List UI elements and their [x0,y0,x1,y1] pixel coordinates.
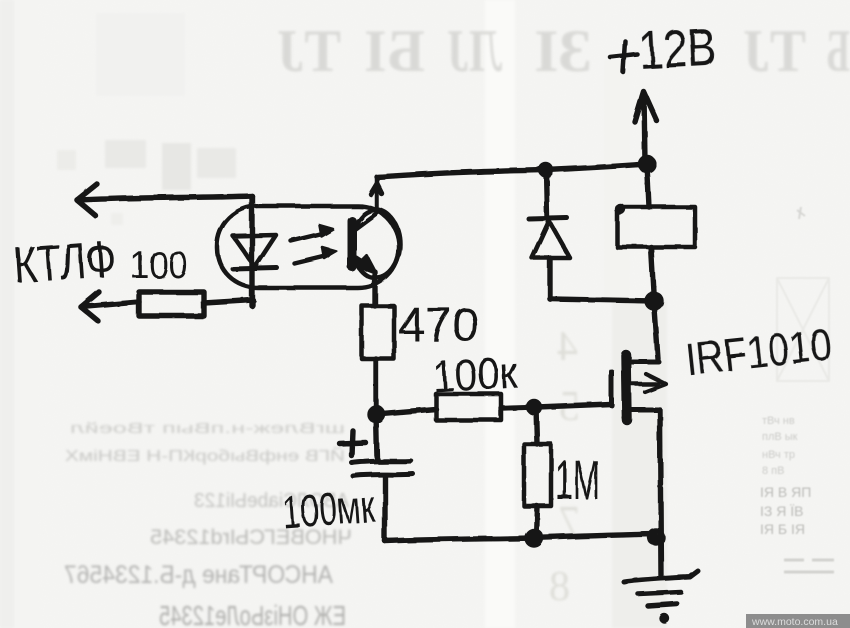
svg-text:тВч нв: тВч нв [762,415,795,427]
+12V arrow [644,94,645,163]
MOSFET gate bar [609,371,614,405]
resistor 100k [436,394,501,420]
junction node bottom rail [527,531,541,545]
svg-text:плВ ык: плВ ык [762,431,798,443]
svg-text:8: 8 [549,564,570,610]
wire: junction to 100k [376,409,436,414]
wire: gate to divider node [537,404,611,407]
wire: diode bottom to relay bottom junction [550,299,654,301]
wire: resistor 100 to LED cathode [204,300,253,303]
svg-text:нВч тр: нВч тр [762,449,795,461]
phototransistor base bar [348,221,357,267]
svg-text:ІЯ Б ІЯ: ІЯ Б ІЯ [760,521,805,537]
junction node gate divider [529,402,540,413]
junction node at +12V [641,158,654,171]
svg-text:ЕЖ ОНізЬоЛе12345: ЕЖ ОНізЬоЛе12345 [159,600,346,628]
phototransistor collector [354,177,377,230]
wire: bottom-left arrow [81,292,99,321]
whiter scanner strip [485,0,515,628]
svg-text:ТЈ: ТЈ [743,18,806,84]
LED of optocoupler [233,235,276,267]
svg-text:1М: 1М [555,448,600,511]
MOSFET body arrow [632,382,658,387]
light arrow 1 [291,233,324,241]
faint square top-left [96,13,185,96]
svg-text:ЛЈ: ЛЈ [447,18,502,84]
diode (flyback) [546,170,547,217]
capacitor 100mk [376,414,377,459]
ground symbol [624,571,698,582]
svg-text:ІЗ Я ЇВ: ІЗ Я ЇВ [760,503,803,519]
svg-text:100мк: 100мк [280,480,377,538]
optocoupler body oval [217,206,399,288]
svg-text:4: 4 [557,324,578,370]
relay coil [647,164,649,207]
bleed-through: right column box with X and small text [760,207,834,572]
svg-text:КТЛФ: КТЛФ [12,230,118,294]
svg-text:шгВлеж-н.пВып тВоейл: шгВлеж-н.пВып тВоейл [70,420,345,437]
phototransistor circle [352,210,400,278]
svg-text:100: 100 [130,245,188,287]
svg-text:12В: 12В [637,17,717,81]
watermark www.moto.com.ua [746,614,850,628]
svg-text:470: 470 [398,299,479,352]
svg-text:8 пВ: 8 пВ [762,465,784,477]
resistor 100 (telephone line) [139,292,204,316]
svg-text:БІ: БІ [364,18,425,84]
MOSFET source [628,408,660,413]
label +12В plus sign [610,54,637,57]
svg-text:ТЈ: ТЈ [277,18,341,84]
svg-text:www.moto.com.ua: www.moto.com.ua [751,616,838,628]
svg-text:ІЯ В ЯП: ІЯ В ЯП [760,484,811,500]
wire: collector to +12V rail [377,164,647,177]
resistor 1M [536,407,537,444]
svg-text:ЗІ: ЗІ [534,18,592,84]
svg-text:100к: 100к [431,347,519,402]
junction node at diode [541,165,551,175]
left edge scan texture band [0,0,38,628]
bleed-through: mirrored text rows bottom-left [64,420,352,628]
svg-text:АНСОРТане д-Б.1234567: АНСОРТане д-Б.1234567 [64,561,333,589]
junction node relay bottom [647,294,661,308]
light arrow 2 [294,255,327,263]
bleed-through: mirrored page digits column [549,324,580,610]
MOSFET channel bar [626,355,627,420]
bleed-through: big mirrored heading letters top [277,18,850,84]
MOSFET IRF1010 drain [654,301,658,359]
svg-text:ЙГВ енфВыборКП-Н ЕВНімХ: ЙГВ енфВыборКП-Н ЕВНімХ [65,446,345,465]
junction loop at ground [650,531,662,543]
junction node base divider [370,408,383,421]
svg-text:Б: Б [826,18,850,84]
bleed-through: faint blocks row y150-195 [57,140,236,262]
bottom rail wire [385,534,655,541]
resistor 470 [362,306,394,359]
wire: top-left line to phone line (КТЛФ) with arrow [77,184,97,216]
wire: LED anode/cathode vertical lead [249,196,254,306]
vertical gray scan band right of mosfet [612,300,667,628]
phototransistor emitter with arrow [354,257,371,268]
